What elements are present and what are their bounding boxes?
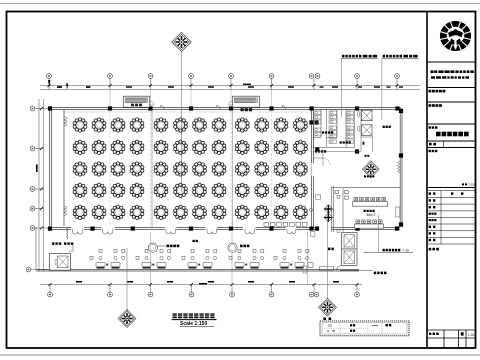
banquet table T2-1 (73, 140, 87, 154)
titleblock line 3 (427, 101, 476, 103)
banquet table T4-5 (154, 183, 168, 197)
outer trim line top (0, 3, 480, 5)
ceiling grid lines in hall (110, 110, 272, 227)
banquet table T3-12 (294, 162, 308, 176)
buffet table 1 (353, 197, 388, 206)
top wall (49, 108, 401, 110)
signature table (427, 191, 476, 245)
left elevator shaft (50, 243, 74, 270)
wc stalls right bank (346, 111, 354, 143)
bottom wall door curls (73, 229, 296, 235)
reception round table 2 (228, 243, 250, 252)
banquet table T5-11 (274, 205, 288, 219)
banquet table T3-7 (193, 162, 207, 176)
left wall scallop bottom (64, 206, 67, 216)
banquet table T5-5 (154, 205, 168, 219)
entry vestibule box 2 (228, 96, 259, 111)
curved wall by elevators (336, 265, 342, 271)
sofa group 3 (182, 250, 217, 269)
elevator top 2 (362, 125, 373, 136)
left dim ticks (36, 107, 43, 230)
wall cabinet right (396, 207, 400, 217)
banquet table T3-5 (154, 162, 168, 176)
top wall columns (48, 106, 400, 110)
niche box below column pair (311, 232, 315, 237)
lower elevator shaft 1 (342, 233, 357, 249)
service room side chairs (335, 191, 348, 200)
banquet table T2-10 (255, 140, 269, 154)
entry vestibule box 1 (123, 96, 154, 107)
banquet table T1-12 (294, 118, 308, 132)
logo wreath (440, 20, 471, 51)
svg-text:1-01: 1-01 (468, 333, 475, 337)
top wall door hooks (161, 105, 286, 109)
banquet table T4-10 (255, 183, 269, 197)
top wall inner soffit line (64, 111, 311, 113)
project no label (429, 332, 475, 337)
lower elevator shaft 2 (342, 249, 357, 265)
banquet table T4-6 (174, 183, 188, 197)
restroom label 1 (322, 131, 333, 133)
hall right wall (311, 108, 313, 230)
banquet table T1-9 (235, 118, 249, 132)
company text row A (430, 70, 474, 73)
banquet table T3-9 (235, 162, 249, 176)
bottom wall columns (48, 227, 399, 231)
right wall door zigzag (398, 161, 401, 173)
bottom dim texts (76, 281, 339, 284)
diamond label top (365, 155, 370, 157)
lower right column fixture (303, 263, 313, 274)
bottom grid bubbles (48, 285, 360, 297)
top dim ticks (48, 84, 399, 87)
left wall scallop top (64, 117, 67, 127)
elevator hall label (383, 126, 391, 128)
banquet table T5-1 (73, 205, 87, 219)
label row 2 (429, 104, 442, 107)
banquet table T2-2 (92, 140, 106, 154)
drawing content label (429, 150, 438, 152)
title block left divider (426, 11, 428, 348)
banquet table T2-6 (174, 140, 188, 154)
titleblock line 6 (427, 147, 476, 149)
leader to title diamond (126, 248, 128, 311)
banquet table T5-12 (294, 205, 308, 219)
banquet table T2-9 (235, 140, 249, 154)
hall right wall door curls (311, 164, 312, 177)
banquet table T1-3 (111, 118, 125, 132)
ornament diamond mid right (362, 161, 379, 178)
restroom label 2 (340, 141, 351, 143)
banquet table T5-8 (212, 205, 226, 219)
banquet table T5-4 (130, 205, 144, 219)
project label (429, 126, 438, 128)
right building wall (400, 108, 402, 227)
drawing title (172, 313, 217, 327)
banquet table T1-10 (255, 118, 269, 132)
left elevator lobby label (52, 242, 61, 244)
top annotation label 2 (382, 55, 419, 58)
small label mid (328, 248, 334, 251)
elevator top 1 (362, 110, 373, 121)
company text row B (431, 76, 469, 78)
note label (429, 248, 439, 251)
corridor wall fixtures (309, 195, 340, 233)
buffet label 56m2 (364, 210, 376, 217)
bottom dim ticks (49, 283, 359, 286)
small tick label right area (363, 142, 365, 145)
banquet table T1-2 (92, 118, 106, 132)
banquet table T3-10 (255, 162, 269, 176)
top dimension line 1 (40, 85, 420, 87)
console table mid corridor (320, 267, 334, 271)
banquet table T5-3 (111, 205, 125, 219)
corridor left curtain curl (67, 228, 69, 239)
banquet table T2-5 (154, 140, 168, 154)
banquet table T4-8 (212, 183, 226, 197)
banquet table T4-2 (92, 183, 106, 197)
bottom left ornament diamond (118, 309, 136, 327)
tiny label 4.5M (64, 242, 73, 244)
banquet table T2-12 (294, 140, 308, 154)
titleblock line 2 (427, 87, 476, 89)
mid columns hall right wall (309, 109, 403, 227)
banquet table T3-1 (73, 162, 87, 176)
diamond label below (364, 175, 374, 177)
svg-text:1:150: 1:150 (469, 183, 476, 187)
center line from ornament (181, 52, 183, 193)
banquet table T1-1 (73, 118, 87, 132)
hall dashed line left (73, 112, 75, 227)
banquet table T5-9 (235, 205, 249, 219)
banquet table T5-2 (92, 205, 106, 219)
lower label with underline (340, 270, 386, 274)
corridor bottom wall (36, 270, 359, 271)
left dimension line 2 (43, 99, 45, 271)
grid stems to wall (110, 90, 272, 108)
sofa group 5 (274, 250, 309, 269)
banquet table T3-3 (111, 162, 125, 176)
titleblock line 4 (427, 123, 476, 125)
row tu ming (429, 143, 436, 146)
elevation annotation right (364, 215, 414, 253)
banquet table T5-10 (255, 205, 269, 219)
banquet table T3-8 (212, 162, 226, 176)
bottom right ornament diamond (318, 298, 336, 316)
project name blocks (436, 132, 469, 137)
ticks under diamond (323, 317, 331, 320)
corridor left wall (35, 227, 37, 270)
banquet table T4-12 (294, 183, 308, 197)
wc stalls left bank (314, 111, 322, 136)
leader to legend diamond (327, 221, 329, 300)
svg-text:=-10: =-10 (402, 249, 409, 253)
grid extension verticals in corridor (150, 232, 152, 285)
banquet table T2-8 (212, 140, 226, 154)
banquet table T4-1 (73, 183, 87, 197)
restroom label hall side (315, 150, 326, 152)
left dimension line 1 (38, 99, 40, 271)
banquet table T3-11 (274, 162, 288, 176)
banquet table T3-6 (174, 162, 188, 176)
bottom cells (427, 330, 476, 348)
banquet table T3-4 (130, 162, 144, 176)
elevator door niches (358, 112, 360, 132)
bottom dimension line (40, 284, 362, 286)
banquet table T1-7 (193, 118, 207, 132)
svg-text:56m 2: 56m 2 (367, 213, 376, 217)
banquet table T2-4 (130, 140, 144, 154)
titleblock line 1 (427, 61, 476, 63)
banquet table T4-7 (193, 183, 207, 197)
banquet table T4-3 (111, 183, 125, 197)
buffet table 2 (355, 220, 384, 228)
counter row in hall SE (264, 222, 307, 226)
banquet table T1-6 (174, 118, 188, 132)
titleblock line 7 (427, 187, 476, 189)
banquet table T3-2 (92, 162, 106, 176)
banquet table T1-5 (154, 118, 168, 132)
label row: design firm (429, 90, 446, 93)
left grid bubbles (26, 106, 49, 272)
hall bottom wall segments (49, 228, 400, 230)
banquet table T2-11 (274, 140, 288, 154)
small compass diamonds lower (324, 205, 332, 213)
banquet table T5-6 (174, 205, 188, 219)
banquet table T4-11 (274, 183, 288, 197)
hall grid solid verticals (151, 110, 153, 227)
legend box (320, 321, 409, 336)
banquet table T2-3 (111, 140, 125, 154)
left wall (50, 108, 64, 227)
service room walls (332, 186, 400, 232)
banquet table T1-4 (130, 118, 144, 132)
banquet table T5-7 (193, 205, 207, 219)
banquet table T4-4 (130, 183, 144, 197)
restroom walls (313, 109, 361, 151)
wc stalls mid bank (329, 111, 337, 143)
service room divider (313, 136, 372, 166)
sofa group 1 (90, 250, 125, 269)
top annotation label 1 (341, 55, 378, 58)
banquet table T2-7 (193, 140, 207, 154)
top grid bubbles (47, 74, 400, 90)
sofa group 4 (229, 250, 264, 269)
outer trim line bottom (0, 354, 480, 356)
top center ornament diamond (172, 32, 192, 52)
sig row labels (429, 192, 464, 241)
bar table label (193, 240, 198, 242)
banquet table T4-9 (235, 183, 249, 197)
scale note in box (462, 183, 476, 187)
reception round table 1 (148, 243, 179, 252)
annotation leader lines (340, 58, 342, 117)
titleblock line 5 (427, 140, 476, 142)
sofa group 2 (136, 250, 171, 269)
top dimension line 2 (40, 89, 420, 91)
banquet table T1-8 (212, 118, 226, 132)
top dim arrow posts (48, 80, 403, 90)
banquet table T1-11 (274, 118, 288, 132)
